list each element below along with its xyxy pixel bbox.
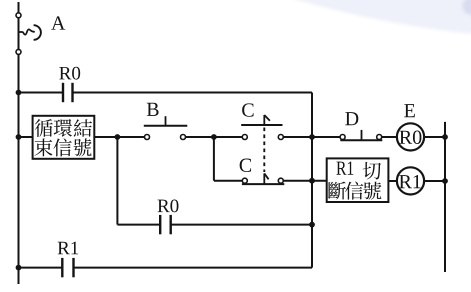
node bus-rung — [309, 134, 315, 140]
node rightrail-R1coil — [442, 178, 448, 184]
node row1-leftrail — [16, 90, 22, 96]
wire middle bus — [311, 93, 313, 268]
contact R1 (bottom) — [61, 258, 63, 277]
wire main rung — [19, 136, 33, 138]
label B — [147, 103, 159, 116]
contact R0 (row1) — [62, 83, 64, 102]
wire R0 lower branch — [116, 137, 118, 225]
wire row1 — [19, 92, 64, 94]
wire right rail — [444, 122, 446, 272]
decorative background arc — [284, 0, 471, 34]
label C upper — [242, 103, 253, 116]
node rightrail-R0coil — [442, 134, 448, 140]
contact R0 (lower) — [159, 215, 161, 234]
coil R1 — [397, 167, 424, 194]
label D — [345, 112, 358, 125]
label R0 — [59, 67, 71, 79]
annotation box 循環結束信號 — [33, 116, 95, 159]
node rail-rung — [16, 134, 22, 140]
wire bottom rung — [19, 267, 63, 269]
label E — [404, 104, 415, 117]
wire C2 branch — [213, 137, 215, 181]
contact C upper (NC with operator) — [242, 135, 247, 140]
pushbutton B — [145, 135, 150, 140]
label R0 lower — [158, 200, 170, 212]
contact C lower (NO with operator) — [242, 178, 247, 183]
label R1 bottom — [58, 242, 70, 254]
node bus-C2 — [309, 178, 315, 184]
label A — [51, 16, 65, 29]
decorative corner blob — [463, 0, 471, 15]
label C lower — [240, 159, 251, 172]
annotation box R1 切斷信號 — [327, 158, 389, 202]
coil R0 — [397, 123, 424, 150]
node branch-C2 — [211, 134, 217, 140]
node rail-bottom — [16, 265, 22, 271]
node branch-R0low — [115, 134, 121, 140]
contact A (flasher symbol) — [16, 13, 21, 18]
node bus-R0low — [309, 222, 315, 228]
pushbutton D — [340, 135, 345, 140]
mechanical link dashed — [263, 128, 265, 173]
wire left rail — [18, 2, 20, 284]
